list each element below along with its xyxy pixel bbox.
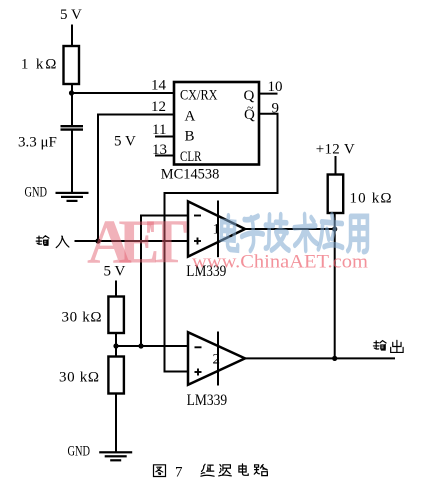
wire divider 5V stub [115,281,117,298]
capacitor C1 3.3uF plates [61,125,84,127]
CJK GLYPHS [36,236,403,477]
svg-text:5 V: 5 V [60,7,82,23]
svg-text:11: 11 [152,122,166,138]
comparator 1 power line [217,201,219,258]
node divider-comp1 feedback dot [138,343,143,348]
svg-text:13: 13 [152,142,167,158]
svg-text:9: 9 [272,101,280,117]
pin 11 stub [155,136,174,138]
comparator 2 plus mark [195,371,202,373]
svg-text:12: 12 [151,99,166,115]
svg-text:~: ~ [247,101,254,115]
svg-text:5 V: 5 V [114,134,136,150]
wire Q-bar pin 9 to comparator 2 + input [165,114,278,372]
svg-text:3.3 μF: 3.3 μF [18,135,57,151]
watermark layer [87,209,369,277]
svg-text:www.ChinaAET.com: www.ChinaAET.com [192,253,369,273]
pin 13 stub [155,155,174,157]
svg-text:10 kΩ: 10 kΩ [350,191,392,207]
wire input line to comp1 + [75,240,189,242]
caption char 图 [154,465,166,477]
svg-text:1 kΩ: 1 kΩ [21,57,57,73]
caption char 路 [254,465,267,476]
svg-text:CLR: CLR [180,149,202,165]
svg-text:GND: GND [68,444,91,460]
node output junction dot [332,356,337,361]
wire comp1 output to pullup node [245,228,335,230]
node divider midpoint dot [113,343,118,348]
resistor R1 1k [64,46,80,84]
IC U1 MC14538 box [174,82,259,165]
svg-text:14: 14 [151,78,167,94]
svg-text:+12 V: +12 V [316,142,355,158]
resistor R3 10k [328,175,344,214]
caption char 延 [201,464,214,476]
wire comp1 - to divider midpoint [141,216,188,347]
node A junction dot [69,90,74,95]
wire divider midpoint to comp2 - [116,345,188,347]
op-amp U2A LM339 comparator 1 triangle [188,201,245,256]
comparator 1 minus mark [194,215,201,217]
svg-text:7: 7 [175,465,183,481]
resistor R5 30k lower [108,357,124,394]
wire between 30k resistors [115,333,117,357]
ground symbol top [56,192,89,202]
comparator 2 power line [217,332,219,386]
svg-text:A: A [185,109,196,125]
svg-text:MC14538: MC14538 [161,167,220,183]
caption char 迟 [219,465,232,476]
comparator 1 plus mark [194,240,201,242]
watermark calligraphy 电子技术应用 [221,214,368,252]
wire 5V stub to R1 [71,25,73,48]
wire R1 to node A [71,84,73,127]
wire pin 12 to input node [98,115,174,242]
wire node A to pin 14 [71,92,175,94]
resistor R4 30k upper [108,297,124,334]
input label 输入 [36,236,49,245]
caption char 电 [239,464,248,475]
node input junction dot [95,238,100,243]
power +12V stub [335,156,337,175]
svg-text:10: 10 [268,79,283,95]
wire comp2 output to terminal [245,357,395,359]
svg-text:LM339: LM339 [187,392,228,409]
wire 30k to ground [115,394,117,453]
ground symbol bottom [99,451,132,461]
svg-text:1: 1 [213,222,221,238]
svg-text:CX/RX: CX/RX [180,88,218,104]
node comp1 output junction dot [332,226,337,231]
pin 10 stub Q [259,93,278,95]
output label 输出 [373,341,386,350]
svg-text:GND: GND [25,185,48,201]
wire 10k to output node [334,213,336,358]
wire capacitor to ground [71,129,73,193]
svg-text:30 kΩ: 30 kΩ [62,310,102,326]
op-amp U2B LM339 comparator 2 triangle [188,332,245,385]
svg-text:AET: AET [87,209,187,277]
comparator 2 minus mark [195,346,202,348]
svg-text:30 kΩ: 30 kΩ [59,370,99,386]
svg-text:2: 2 [213,352,221,368]
svg-text:B: B [185,129,195,145]
